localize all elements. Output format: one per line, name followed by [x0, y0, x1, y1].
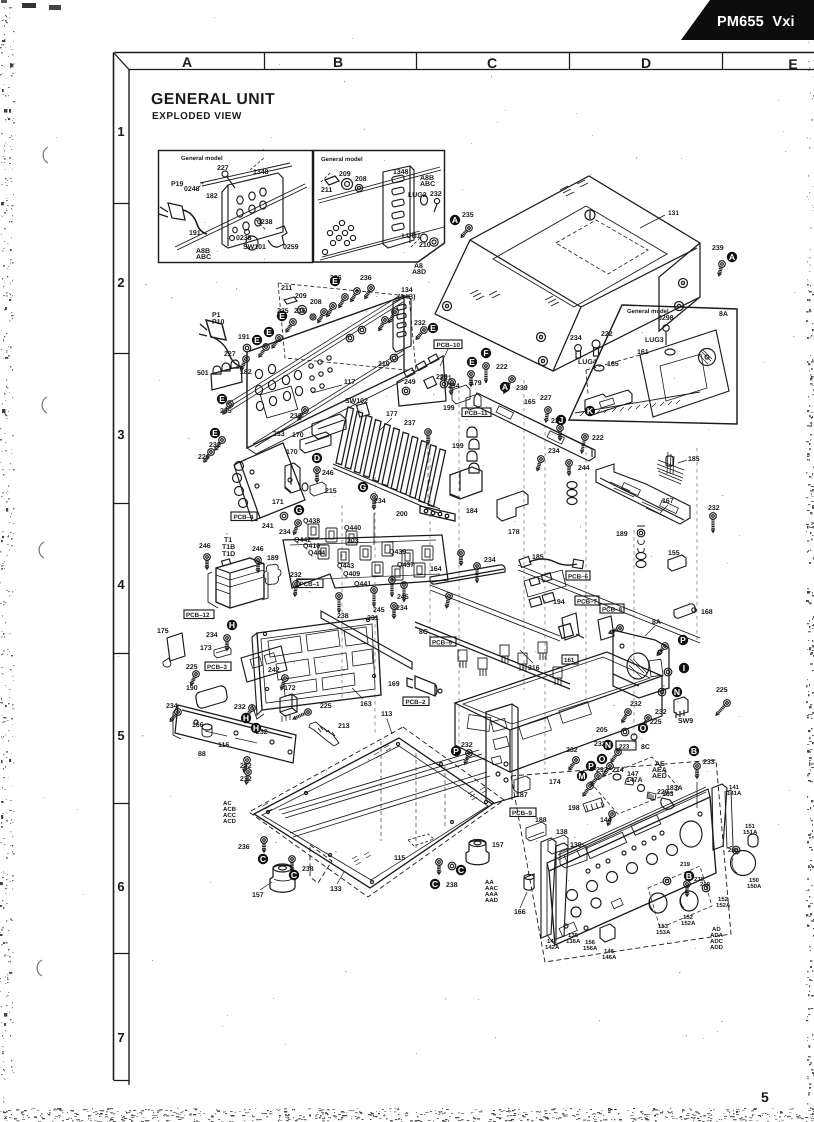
svg-text:234: 234 [166, 703, 178, 710]
svg-text:232: 232 [290, 572, 302, 579]
svg-text:199: 199 [443, 405, 455, 412]
PCB-9 label [510, 808, 536, 817]
166 grommet [202, 724, 212, 730]
svg-text:T1: T1 [224, 537, 232, 544]
bracket 165 long [474, 393, 595, 461]
svg-text:PM655 Vxi: PM655 Vxi [717, 14, 795, 30]
panel face [549, 797, 716, 945]
svg-text:234: 234 [374, 498, 386, 505]
transistors on PCB-1 [308, 524, 433, 580]
circled index letters [210, 215, 737, 889]
225 screw + 213 rod [292, 708, 313, 722]
88 long bracket [175, 705, 296, 763]
svg-text:Q443: Q443 [337, 563, 354, 570]
244 washers column [566, 460, 573, 476]
LUG parts [421, 195, 428, 205]
svg-text:232: 232 [708, 505, 720, 512]
svg-text:210: 210 [419, 242, 431, 249]
step bracket 165 [585, 390, 632, 415]
svg-text:232: 232 [430, 191, 442, 198]
svg-text:T1B: T1B [222, 544, 235, 551]
inset box 2: General model lug detail [314, 151, 445, 263]
svg-text:210: 210 [378, 361, 390, 368]
bracket 178 [497, 491, 528, 521]
label box PCB-4 [231, 512, 257, 521]
foot 157 left [270, 865, 295, 892]
rear panel 117 [247, 296, 404, 448]
svg-text:151A: 151A [743, 829, 758, 836]
screws and C markers [261, 837, 268, 853]
rails in inset1 [175, 184, 307, 250]
svg-text:228: 228 [436, 374, 448, 381]
svg-text:161: 161 [637, 349, 649, 356]
svg-text:H: H [253, 723, 259, 733]
rails inset2 [318, 167, 441, 203]
svg-text:8A: 8A [652, 619, 661, 626]
svg-text:A: A [452, 215, 458, 225]
chassis tray 163 [252, 611, 662, 772]
svg-text:147A: 147A [626, 777, 643, 784]
svg-text:185: 185 [532, 554, 544, 561]
svg-text:131: 131 [668, 210, 679, 217]
svg-text:222: 222 [601, 331, 613, 338]
svg-text:232: 232 [209, 442, 221, 449]
svg-text:198: 198 [568, 805, 580, 812]
slotted panel in inset2 [383, 166, 414, 248]
svg-text:AD: AD [712, 926, 721, 933]
svg-text:General model: General model [321, 156, 363, 163]
svg-text:182: 182 [206, 193, 218, 200]
svg-text:234: 234 [279, 529, 291, 536]
svg-text:188: 188 [535, 817, 547, 824]
svg-text:B: B [333, 54, 343, 70]
PCB-5 bus rail [415, 622, 570, 689]
transistors on rail [458, 642, 562, 685]
PCB-10 board [378, 212, 528, 427]
svg-text:6: 6 [117, 879, 124, 894]
inset box 1: General model rear panel detail [159, 151, 313, 263]
svg-text:233: 233 [290, 413, 302, 420]
svg-text:D: D [641, 55, 651, 71]
right chassis 8A / SW9 [486, 619, 732, 817]
svg-text:J: J [559, 415, 564, 425]
205 223 8C [621, 728, 629, 736]
svg-text:133: 133 [330, 886, 342, 893]
svg-text:2: 2 [117, 275, 124, 290]
198 connector [583, 798, 604, 812]
vertical amp board 174 [486, 704, 518, 804]
corner screws tiny [267, 811, 270, 814]
svg-text:Q438: Q438 [303, 518, 320, 525]
189 stack [637, 529, 645, 537]
svg-text:184: 184 [466, 508, 478, 515]
svg-text:227: 227 [224, 351, 236, 358]
svg-text:235: 235 [294, 308, 306, 315]
svg-text:152: 152 [683, 914, 694, 921]
svg-text:N: N [605, 740, 611, 750]
svg-text:156: 156 [585, 939, 596, 946]
svg-text:8C: 8C [641, 744, 650, 751]
svg-text:235: 235 [462, 212, 474, 219]
svg-text:ADA: ADA [710, 932, 724, 939]
bracket 0259 [268, 226, 287, 247]
210 nut [390, 354, 398, 362]
PCB-3 [205, 662, 231, 671]
label box PCB-1 [297, 579, 323, 588]
svg-text:146A: 146A [602, 954, 617, 961]
194 connectors [529, 597, 542, 608]
146 cube [600, 924, 615, 942]
svg-text:175: 175 [157, 628, 169, 635]
parts 211 209 208 [284, 297, 297, 304]
PCB-6 with connectors [524, 570, 566, 597]
svg-text:C: C [291, 870, 297, 880]
svg-text:A: A [502, 382, 508, 392]
svg-text:146: 146 [604, 948, 615, 955]
svg-text:1348: 1348 [393, 169, 409, 176]
svg-text:238: 238 [337, 613, 349, 620]
svg-text:1: 1 [117, 124, 124, 139]
svg-text:117: 117 [344, 379, 355, 386]
svg-text:0259: 0259 [283, 244, 299, 251]
svg-text:PCB–10: PCB–10 [437, 342, 461, 349]
svg-text:141A: 141A [727, 790, 742, 797]
svg-text:187: 187 [516, 792, 528, 799]
svg-text:P: P [588, 761, 594, 771]
svg-text:General model: General model [627, 308, 669, 315]
svg-text:234: 234 [206, 632, 218, 639]
svg-text:PCB–5: PCB–5 [432, 640, 453, 647]
svg-text:165: 165 [607, 361, 619, 368]
svg-text:E: E [332, 276, 338, 286]
svg-text:139: 139 [570, 842, 582, 849]
svg-text:5: 5 [761, 1089, 769, 1105]
svg-text:225: 225 [716, 687, 728, 694]
svg-text:ADC: ADC [710, 938, 724, 945]
cover top recess [493, 206, 667, 307]
shield chassis 161 [455, 652, 662, 730]
svg-text:ACD: ACD [223, 818, 237, 825]
svg-text:222: 222 [592, 435, 604, 442]
184 foam block [450, 467, 482, 499]
svg-text:B: B [691, 746, 697, 756]
svg-text:238: 238 [446, 882, 458, 889]
svg-text:152A: 152A [716, 902, 731, 909]
svg-text:SW102: SW102 [345, 398, 368, 405]
column separators [264, 53, 266, 70]
cover screw holes [443, 302, 452, 311]
svg-text:F: F [483, 348, 488, 358]
svg-text:ADD: ADD [710, 944, 724, 951]
svg-text:N: N [674, 687, 680, 697]
svg-text:225: 225 [650, 719, 662, 726]
svg-text:PCB–4: PCB–4 [234, 514, 255, 521]
svg-text:136A: 136A [566, 938, 581, 945]
long dashed leader lines through plate [381, 741, 445, 848]
241 washer [280, 512, 288, 520]
svg-text:239: 239 [712, 245, 724, 252]
svg-text:211: 211 [281, 285, 292, 292]
panel holes [255, 369, 262, 378]
svg-text:219: 219 [680, 861, 691, 868]
PCB-2 motor [407, 676, 437, 696]
screws P/I/N area [655, 641, 670, 657]
bracket 170 [312, 414, 346, 439]
svg-text:190: 190 [186, 685, 198, 692]
trim bar above panel [558, 787, 706, 860]
svg-text:199: 199 [452, 443, 464, 450]
bracket 88 assembly [157, 610, 350, 785]
svg-text:138: 138 [556, 829, 568, 836]
long rails 1348 [227, 296, 403, 410]
svg-text:164: 164 [430, 566, 442, 573]
svg-text:183: 183 [662, 791, 674, 798]
svg-text:LUG2: LUG2 [408, 192, 427, 199]
svg-text:GENERAL UNIT: GENERAL UNIT [151, 91, 275, 108]
svg-text:244: 244 [578, 465, 590, 472]
transformer T1 [199, 537, 302, 608]
svg-text:165: 165 [524, 399, 536, 406]
long screws under PCB-1 [336, 593, 343, 613]
svg-text:171: 171 [272, 499, 284, 506]
bottom hatched rail [575, 392, 700, 413]
svg-text:189: 189 [267, 555, 279, 562]
PCB-12 label + board 175 [184, 610, 214, 619]
PCB-1 main board [283, 518, 464, 622]
svg-text:234: 234 [548, 448, 560, 455]
svg-text:232: 232 [566, 747, 578, 754]
svg-text:152: 152 [718, 896, 729, 903]
svg-text:173: 173 [200, 645, 212, 652]
svg-text:156A: 156A [583, 945, 598, 952]
svg-text:245: 245 [397, 594, 409, 601]
front panel assembly [485, 760, 762, 962]
svg-text:ACC: ACC [223, 812, 237, 819]
svg-text:236: 236 [360, 275, 372, 282]
svg-text:218: 218 [728, 847, 739, 854]
svg-text:ABC: ABC [420, 181, 435, 188]
bottom plate 115/133 [223, 711, 504, 899]
svg-text:209: 209 [339, 171, 351, 178]
svg-text:E: E [430, 323, 436, 333]
screw near A 235 [346, 223, 726, 341]
185 wire bundle [657, 460, 684, 484]
rear panel assembly 117 [197, 263, 426, 464]
svg-text:AED: AED [652, 773, 667, 780]
bracket 170 [300, 432, 331, 453]
svg-text:1348: 1348 [253, 169, 269, 176]
label 131 [640, 215, 665, 228]
svg-text:E: E [254, 335, 260, 345]
svg-text:O: O [640, 723, 647, 733]
svg-text:P19: P19 [171, 181, 184, 188]
label box PCB-10 [434, 340, 462, 349]
svg-text:246: 246 [199, 543, 211, 550]
svg-text:232: 232 [630, 701, 642, 708]
svg-text:191: 191 [238, 334, 250, 341]
svg-text:157: 157 [252, 892, 264, 899]
svg-text:O: O [599, 754, 606, 764]
svg-text:141: 141 [729, 784, 740, 791]
svg-text:150: 150 [749, 877, 760, 884]
svg-text:236: 236 [238, 844, 250, 851]
svg-text:General model: General model [181, 155, 223, 162]
svg-text:PCB–11: PCB–11 [465, 410, 489, 417]
svg-text:Q441: Q441 [354, 581, 371, 588]
svg-text:242: 242 [268, 667, 280, 674]
PCB-11 label [462, 408, 491, 417]
svg-text:182: 182 [240, 369, 252, 376]
141 bar right [712, 784, 727, 850]
svg-text:C: C [260, 854, 266, 864]
svg-text:3: 3 [117, 427, 124, 442]
hatched circle [699, 349, 716, 366]
svg-text:H: H [229, 620, 235, 630]
svg-text:232: 232 [240, 776, 252, 783]
bracket 220/228 小 [440, 380, 448, 388]
190 block [196, 686, 227, 708]
svg-text:E: E [279, 311, 285, 321]
svg-text:PCB–1: PCB–1 [300, 581, 321, 588]
svg-text:238: 238 [302, 866, 314, 873]
svg-text:172: 172 [284, 685, 296, 692]
cover vents [560, 180, 588, 196]
svg-text:Q444: Q444 [308, 550, 325, 557]
hatch clusters [372, 745, 391, 758]
svg-text:116: 116 [218, 742, 229, 749]
189 wire clamp [263, 564, 281, 584]
svg-text:P1: P1 [212, 312, 221, 319]
foot 157 right [466, 841, 489, 865]
J K screws [557, 425, 564, 441]
svg-text:Q409: Q409 [343, 571, 360, 578]
svg-text:249: 249 [404, 379, 416, 386]
svg-text:E: E [212, 428, 218, 438]
svg-text:232: 232 [655, 709, 667, 716]
svg-text:189: 189 [616, 531, 628, 538]
svg-text:A: A [182, 54, 192, 70]
svg-text:K: K [587, 406, 594, 416]
svg-text:222: 222 [496, 364, 508, 371]
svg-text:234: 234 [396, 605, 408, 612]
svg-text:LUG4: LUG4 [578, 359, 597, 366]
svg-text:234: 234 [570, 335, 582, 342]
svg-text:200: 200 [396, 511, 408, 518]
svg-text:203: 203 [347, 538, 359, 545]
clamp 171 [285, 463, 300, 493]
svg-text:178: 178 [508, 529, 520, 536]
B233 screw [694, 763, 701, 779]
svg-text:232: 232 [414, 320, 426, 327]
173 bracket [214, 646, 231, 658]
1348 slotted bracket [393, 296, 411, 352]
svg-text:ABC: ABC [196, 254, 211, 261]
screws with E labels left [283, 317, 297, 333]
leader lines [312, 385, 358, 406]
PCB-8 [600, 604, 624, 613]
svg-text:ACB: ACB [223, 806, 237, 813]
rear panel 3D in inset1 [222, 173, 283, 248]
svg-text:177: 177 [386, 411, 398, 418]
screws near pcb10 [414, 325, 429, 341]
215 clip [310, 482, 326, 496]
page title [151, 91, 275, 122]
PCB-7 [575, 596, 599, 605]
svg-text:169: 169 [388, 681, 400, 688]
svg-text:174: 174 [549, 779, 561, 786]
svg-text:239: 239 [516, 385, 528, 392]
svg-text:Q440: Q440 [344, 525, 361, 532]
svg-text:227: 227 [540, 395, 552, 402]
svg-text:SW101: SW101 [243, 244, 266, 251]
svg-text:232: 232 [596, 767, 608, 774]
svg-text:163: 163 [360, 701, 372, 708]
svg-text:144: 144 [600, 817, 612, 824]
svg-text:AAD: AAD [485, 897, 499, 904]
svg-text:PCB–12: PCB–12 [186, 612, 210, 619]
svg-text:B: B [686, 871, 692, 881]
8A bracket with circle [613, 630, 669, 698]
svg-text:H: H [243, 713, 249, 723]
svg-text:P10: P10 [212, 319, 225, 326]
svg-text:E: E [788, 56, 797, 72]
168 [674, 604, 695, 618]
screw 227b [238, 355, 251, 372]
svg-text:205: 205 [596, 727, 608, 734]
svg-text:209: 209 [295, 293, 307, 300]
svg-text:7: 7 [117, 1030, 124, 1045]
PCB-4 board [231, 427, 482, 545]
svg-text:232: 232 [234, 704, 246, 711]
svg-text:225: 225 [320, 703, 332, 710]
screw cluster in inset2 [327, 230, 332, 235]
row numbers [117, 124, 125, 1045]
svg-text:T1D: T1D [222, 551, 235, 558]
166 grommet [524, 874, 534, 890]
svg-text:185: 185 [688, 456, 700, 463]
svg-text:215: 215 [325, 488, 337, 495]
svg-text:241: 241 [262, 523, 274, 530]
svg-text:113: 113 [381, 711, 392, 718]
svg-text:AA: AA [485, 879, 494, 886]
svg-text:C: C [487, 55, 497, 71]
svg-text:Q439: Q439 [389, 549, 406, 556]
svg-text:SW9: SW9 [678, 718, 693, 725]
vertical assembly alignment dashed lines [342, 380, 697, 770]
washer 191 [243, 344, 251, 352]
knobs [649, 893, 667, 913]
svg-text:235: 235 [220, 408, 232, 415]
connector 501 [213, 360, 239, 374]
svg-text:C: C [458, 865, 464, 875]
SW9 [674, 688, 688, 718]
cover right flange [659, 243, 700, 331]
svg-text:C: C [432, 879, 438, 889]
svg-text:P: P [680, 635, 686, 645]
0238 washers [245, 230, 250, 235]
svg-text:142: 142 [547, 938, 558, 945]
power plug P1/P10 [199, 324, 207, 336]
svg-text:234: 234 [484, 557, 496, 564]
svg-text:246: 246 [252, 546, 264, 553]
188 138 139 small plates [526, 822, 546, 841]
svg-text:153A: 153A [656, 929, 671, 936]
svg-text:208: 208 [310, 299, 322, 306]
black model banner [681, 0, 814, 40]
svg-text:LUG3: LUG3 [645, 337, 664, 344]
svg-text:161: 161 [564, 657, 575, 664]
column letters [182, 54, 798, 72]
